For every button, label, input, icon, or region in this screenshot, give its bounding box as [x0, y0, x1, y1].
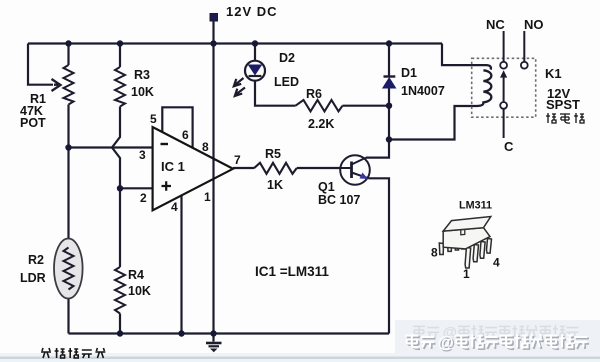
svg-text:SPST: SPST — [546, 97, 580, 112]
wire pin7 to R5 — [233, 167, 254, 169]
svg-text:4: 4 — [171, 200, 178, 214]
svg-text:IC1 =LM311: IC1 =LM311 — [255, 264, 329, 279]
relay K1 coil — [477, 65, 491, 106]
node LED top — [252, 40, 258, 46]
DIP-8 package U1 — [439, 217, 491, 269]
svg-text:D2: D2 — [279, 51, 295, 65]
svg-text:2: 2 — [140, 191, 147, 205]
relay NC lead — [503, 31, 505, 62]
transistor Q1 emitter stroke with arrow — [352, 173, 369, 179]
LED D2 circle — [245, 61, 265, 81]
LDR R2 ellipse — [54, 239, 83, 299]
relay armature arrow — [503, 77, 505, 102]
node R1-LDR junction — [65, 144, 71, 150]
LDR R2 zigzag — [64, 248, 74, 290]
wire pin2 input line — [120, 187, 153, 189]
LED D2 cathode bar — [249, 75, 262, 77]
text relay CJK 继电器 — [546, 113, 584, 123]
resistor R1 zigzag — [64, 65, 74, 105]
node pin4 bottom — [178, 330, 184, 336]
svg-text:1N4007: 1N4007 — [401, 84, 445, 98]
wire top rail — [28, 42, 442, 44]
svg-text:LDR: LDR — [20, 271, 46, 285]
node ground junction — [210, 330, 216, 336]
bottom-right watermark wash — [395, 320, 600, 362]
wire pin4 to ground rail — [180, 196, 182, 334]
LED D2 triangle — [249, 65, 262, 75]
resistor R6 zigzag — [296, 100, 343, 111]
wire pin5 pin6 loop — [162, 107, 192, 148]
diode D1 cathode bar — [384, 75, 396, 77]
LED D2 emission arrow 1 — [234, 78, 244, 86]
transistor Q1 collector stroke — [352, 158, 367, 165]
wire Q1 collector up to node — [366, 140, 389, 158]
svg-text:10K: 10K — [128, 284, 151, 298]
svg-text:R6: R6 — [306, 87, 322, 101]
wire R5 to Q1 base — [297, 167, 341, 169]
node R3 top — [117, 40, 123, 46]
svg-text:7: 7 — [234, 153, 241, 167]
node supply rail — [210, 40, 216, 46]
wire 12V supply vertical through IC (pins 8/1) to ground — [212, 20, 214, 334]
node R4 bottom — [117, 330, 123, 336]
svg-text:6: 6 — [182, 128, 189, 142]
svg-text:1K: 1K — [267, 178, 283, 192]
dip body top face — [443, 217, 491, 232]
watermark upper gray copy — [413, 325, 578, 341]
node dots — [65, 40, 392, 336]
relay C lead — [503, 109, 505, 138]
svg-text:C: C — [504, 139, 514, 154]
svg-text:R3: R3 — [134, 68, 150, 82]
wire bottom ground rail — [69, 332, 390, 334]
svg-text:IC 1: IC 1 — [161, 159, 185, 174]
svg-text:1: 1 — [463, 267, 470, 281]
node R1 top — [65, 40, 71, 46]
LED D2 emission arrow 2 — [235, 88, 245, 97]
node D1 top — [386, 40, 392, 46]
dip notch — [461, 230, 465, 235]
wire R1/LDR column — [67, 44, 69, 334]
svg-text:LM311: LM311 — [459, 200, 492, 212]
svg-text:D1: D1 — [401, 66, 417, 80]
svg-text:NC: NC — [486, 17, 505, 32]
svg-text:8: 8 — [202, 140, 209, 154]
svg-text:BC 107: BC 107 — [318, 193, 360, 207]
svg-text:POT: POT — [20, 116, 46, 130]
svg-text:2.2K: 2.2K — [308, 117, 334, 131]
op-amp IC1 triangle — [153, 127, 233, 210]
wire D1 branch — [388, 44, 390, 140]
svg-text:@: @ — [438, 333, 454, 351]
wire pin3 input line — [69, 146, 153, 148]
transistor Q1 base lead — [341, 167, 352, 169]
watermark main embossed copy white face — [405, 333, 587, 351]
node R6-D1 junction — [386, 103, 392, 109]
12V supply square terminal — [210, 14, 218, 22]
relay common contact circle — [500, 102, 507, 109]
dip body side strip — [443, 228, 490, 249]
wire LED branch — [255, 44, 389, 106]
wire relay bottom to collector node — [389, 106, 477, 140]
node D1-relay-collector junction — [386, 136, 392, 142]
svg-text:4: 4 — [493, 256, 500, 270]
svg-text:12V DC: 12V DC — [226, 4, 278, 19]
bottom band — [0, 353, 600, 362]
relay NO lead — [523, 31, 525, 62]
svg-text:5: 5 — [150, 112, 157, 126]
op-amp plus sign — [162, 181, 172, 190]
svg-text:K1: K1 — [545, 66, 562, 81]
transistor Q1 circle — [340, 155, 370, 185]
svg-text:R4: R4 — [128, 268, 144, 282]
svg-text:R2: R2 — [28, 253, 44, 267]
resistor R5 zigzag — [254, 163, 297, 174]
wire left pot wiper drop — [28, 44, 53, 85]
relay NC contact circle — [500, 62, 507, 69]
transistor Q1 base bar — [350, 162, 353, 179]
op-amp minus sign — [161, 143, 169, 145]
svg-text:NO: NO — [524, 17, 544, 32]
resistor R3 zigzag — [115, 67, 125, 107]
svg-text:3: 3 — [139, 148, 146, 162]
resistor R4 zigzag — [115, 267, 125, 314]
svg-text:LED: LED — [274, 75, 299, 89]
svg-text:R5: R5 — [265, 147, 281, 161]
dip left row pins — [439, 243, 443, 255]
text CJK 光激活开关 caption — [41, 348, 105, 358]
svg-text:Q1: Q1 — [318, 180, 335, 194]
wire Q1 emitter down to ground rail — [369, 178, 390, 333]
wire R3/R4 column with crossover jog — [112, 44, 120, 334]
relay K1 dashed box — [472, 58, 536, 117]
diode D1 triangle — [383, 78, 395, 87]
dip front pins 1-4 — [465, 248, 471, 269]
wire relay coil feed — [442, 44, 480, 66]
relay NO contact circle — [521, 62, 528, 69]
svg-text:10K: 10K — [131, 85, 154, 99]
node R3-R4 junction — [117, 185, 123, 191]
potentiometer R1 wiper arrow — [52, 79, 61, 91]
ground symbol — [206, 334, 222, 347]
watermark main embossed copy shadow — [407, 335, 589, 353]
svg-text:8: 8 — [431, 246, 438, 260]
svg-text:1: 1 — [204, 190, 211, 204]
